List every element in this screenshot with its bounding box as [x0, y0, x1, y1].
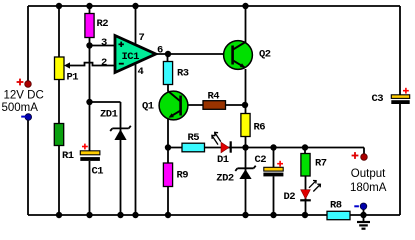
- svg-text:R9: R9: [177, 170, 189, 182]
- svg-text:Q1: Q1: [142, 101, 154, 113]
- svg-text:ZD2: ZD2: [216, 173, 234, 185]
- svg-text:7: 7: [139, 32, 145, 44]
- svg-text:3: 3: [101, 37, 107, 49]
- svg-text:500mA: 500mA: [2, 102, 39, 114]
- svg-text:IC1: IC1: [122, 51, 140, 63]
- svg-text:2: 2: [101, 57, 107, 69]
- svg-text:C2: C2: [255, 154, 267, 166]
- svg-text:R8: R8: [330, 200, 342, 212]
- svg-text:R5: R5: [188, 132, 200, 144]
- svg-text:4: 4: [138, 66, 144, 78]
- svg-text:P1: P1: [67, 72, 79, 84]
- svg-text:R7: R7: [315, 158, 327, 170]
- svg-text:R4: R4: [208, 90, 220, 102]
- svg-text:R3: R3: [177, 68, 189, 80]
- svg-text:C3: C3: [372, 93, 384, 105]
- svg-text:D1: D1: [217, 154, 229, 166]
- svg-text:R2: R2: [97, 18, 109, 30]
- svg-text:R1: R1: [62, 150, 74, 162]
- svg-text:12V DC: 12V DC: [4, 89, 44, 101]
- svg-text:Q2: Q2: [259, 49, 271, 61]
- svg-text:ZD1: ZD1: [100, 109, 118, 121]
- svg-text:6: 6: [157, 44, 163, 56]
- svg-text:Output: Output: [351, 168, 386, 180]
- svg-text:R6: R6: [254, 122, 266, 134]
- svg-text:D2: D2: [284, 191, 296, 203]
- svg-text:C1: C1: [92, 166, 104, 178]
- svg-text:180mA: 180mA: [350, 182, 387, 194]
